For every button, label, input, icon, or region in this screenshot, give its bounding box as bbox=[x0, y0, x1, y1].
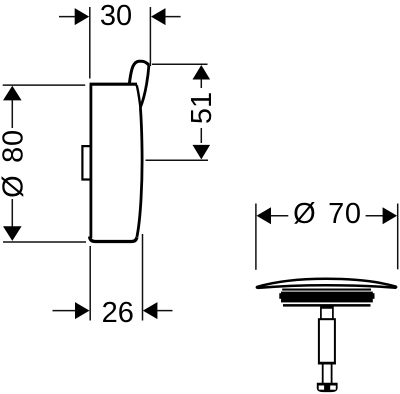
dimension 51: bottom arrowhead bbox=[193, 145, 211, 160]
dimension Ø70: right extension line bbox=[397, 204, 399, 270]
dimension Ø70: right arrowhead bbox=[383, 207, 398, 224]
hook body: bottom edge bbox=[90, 237, 137, 242]
dimension Ø80: lower line segment bbox=[11, 199, 13, 227]
hook body: right edge bbox=[137, 107, 142, 237]
plug lower stem left line bbox=[322, 364, 324, 383]
dimension 26: left arrowhead bbox=[75, 302, 90, 319]
dimension Ø80: top extension line bbox=[3, 84, 86, 86]
dimension Ø70: left line segment bbox=[270, 215, 288, 217]
dimension Ø70: left extension line bbox=[255, 204, 257, 270]
svg-text:Ø 80: Ø 80 bbox=[0, 129, 30, 198]
dimension 30: left arrowhead bbox=[75, 8, 90, 25]
plug shaft bottom thick edge bbox=[318, 362, 336, 365]
dimension Ø80: bottom extension line bbox=[3, 241, 86, 243]
hook tip: inner edge and top bbox=[129, 61, 149, 84]
svg-text:Ø 70: Ø 70 bbox=[293, 198, 362, 230]
plug cap outline bbox=[257, 279, 396, 288]
dimension Ø70: left arrowhead bbox=[257, 207, 272, 224]
dimension 51: bottom extension line bbox=[146, 159, 209, 161]
dimension 26: right arrowhead bbox=[143, 302, 158, 319]
plug seal ring left notch bbox=[279, 293, 282, 299]
dimension 30: right extension line bbox=[149, 7, 151, 66]
plug seal ring bar 2 (main) bbox=[281, 292, 373, 303]
hook body: top edge bbox=[90, 83, 137, 86]
svg-text:51: 51 bbox=[186, 92, 218, 124]
hook body: notch left slope (top edge turning down) bbox=[137, 85, 141, 107]
dimension 30: left arrow tail bbox=[59, 16, 76, 18]
hook body: left edge bbox=[90, 84, 93, 238]
hook tip: outer edge bbox=[140, 65, 149, 107]
plug foot left window bbox=[319, 386, 324, 390]
dimension 51: top arrowhead bbox=[193, 65, 211, 80]
plug foot (knob) bbox=[317, 383, 338, 392]
dimension 26: right extension line bbox=[142, 234, 144, 321]
dimension 26: right arrow tail bbox=[157, 310, 173, 312]
dimension 51: lower line segment bbox=[200, 128, 202, 143]
dimension 26: left arrow tail bbox=[53, 310, 76, 312]
dimension Ø70: right line segment bbox=[366, 215, 384, 217]
plug foot right window bbox=[330, 386, 336, 390]
dimension Ø80: upper line segment bbox=[11, 100, 13, 129]
dimension 30: right arrowhead bbox=[151, 8, 166, 25]
plug seal ring bar 1 bbox=[282, 289, 371, 291]
dimension Ø80: bottom arrowhead bbox=[3, 226, 22, 241]
dimension 30: right arrow tail bbox=[165, 16, 181, 18]
dimension 30: left extension line bbox=[89, 7, 91, 79]
plug lower stem right line bbox=[331, 364, 333, 383]
hook wall-plate rectangle bbox=[82, 146, 91, 179]
plug seal ring bar 3 bbox=[283, 304, 371, 307]
plug neck bbox=[321, 307, 333, 320]
svg-text:26: 26 bbox=[102, 297, 134, 329]
dimension 26: left extension line bbox=[89, 246, 91, 321]
svg-text:30: 30 bbox=[100, 0, 132, 32]
dimension 51: top extension line bbox=[152, 63, 208, 65]
dimension Ø80: top arrowhead bbox=[3, 86, 22, 101]
dimension 51: upper line segment bbox=[200, 79, 202, 88]
plug neck divider line bbox=[321, 307, 333, 309]
plug seal ring right notch bbox=[372, 293, 375, 299]
plug shaft bbox=[319, 319, 335, 363]
